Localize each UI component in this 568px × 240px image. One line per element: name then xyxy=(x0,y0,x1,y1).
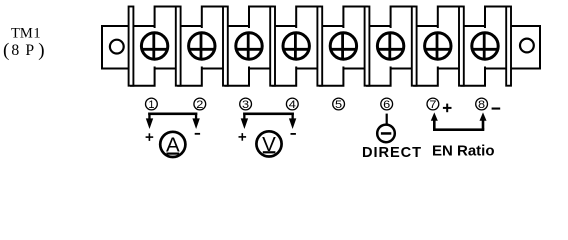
plus sign pin 1 xyxy=(146,133,154,141)
screw terminal 7 xyxy=(425,32,451,59)
barrier 2 xyxy=(176,7,181,86)
terminal 6 bottom wall xyxy=(367,67,391,86)
pin number 8 xyxy=(476,98,488,111)
svg-text:TM: TM xyxy=(11,26,33,42)
barrier 1 xyxy=(129,7,134,86)
terminal 3 bottom wall xyxy=(225,67,249,86)
svg-text:7: 7 xyxy=(429,99,436,111)
svg-text:): ) xyxy=(38,40,44,61)
svg-text:6: 6 xyxy=(383,99,390,111)
terminal 7 bottom wall xyxy=(414,67,438,86)
screw terminal 8 xyxy=(472,32,498,59)
barrier 8 xyxy=(459,7,464,86)
terminal 7 top wall xyxy=(438,7,462,29)
pin number 3 xyxy=(240,98,252,111)
pin number 1 xyxy=(146,98,158,111)
svg-text:EN Ratio: EN Ratio xyxy=(432,143,495,160)
terminal 8 bottom wall xyxy=(461,67,485,86)
terminal block TM1 body xyxy=(102,26,540,69)
barrier 3 xyxy=(223,7,228,86)
minus sign pin 4 xyxy=(291,133,296,135)
terminal 8 top wall xyxy=(485,7,509,29)
terminal 6 top wall xyxy=(391,7,415,29)
barrier 4 xyxy=(270,7,275,86)
minus sign pin 8 xyxy=(492,108,501,110)
screw terminal 2 xyxy=(189,32,215,59)
screw terminal 5 xyxy=(330,32,356,59)
svg-text:5: 5 xyxy=(335,99,342,111)
pin number 4 xyxy=(286,98,298,111)
label TM1 xyxy=(11,26,41,42)
barrier 5 xyxy=(317,7,322,86)
screw terminal 6 xyxy=(377,32,403,59)
barrier 7 xyxy=(412,7,417,86)
barrier 6 xyxy=(365,7,370,86)
terminal 2 top wall xyxy=(202,7,226,29)
minus sign pin 2 xyxy=(195,133,200,135)
barrier 9 xyxy=(506,7,511,86)
left mounting hole xyxy=(110,40,124,54)
svg-text:3: 3 xyxy=(242,99,249,111)
pin number 7 xyxy=(427,98,439,111)
svg-text:DIRECT: DIRECT xyxy=(362,145,422,161)
plus sign pin 3 xyxy=(239,133,247,141)
terminal 2 bottom wall xyxy=(178,67,202,86)
terminal 3 top wall xyxy=(249,7,273,29)
svg-text:4: 4 xyxy=(289,99,296,111)
label (8 P) xyxy=(3,40,45,61)
terminal 5 bottom wall xyxy=(320,67,344,86)
svg-text:2: 2 xyxy=(196,99,203,111)
terminal 4 top wall xyxy=(296,7,320,29)
voltmeter V xyxy=(256,131,281,156)
plus sign pin 7 xyxy=(443,104,452,113)
terminal 5 top wall xyxy=(343,7,367,29)
pin number 6 xyxy=(381,98,393,111)
pin number 2 xyxy=(194,98,206,111)
DIRECT terminal circle xyxy=(377,125,395,143)
svg-text:(: ( xyxy=(3,40,9,61)
wire pins 1-2 to ammeter xyxy=(146,113,200,130)
svg-text:P: P xyxy=(25,42,34,59)
svg-text:8: 8 xyxy=(478,99,485,111)
ammeter A xyxy=(160,132,185,157)
wire pin 6 xyxy=(386,114,388,125)
terminal 4 bottom wall xyxy=(273,67,297,86)
screw terminal 1 xyxy=(141,32,167,59)
screw terminal 4 xyxy=(283,32,309,59)
terminal 1 bottom wall xyxy=(131,67,155,86)
right mounting hole xyxy=(520,39,534,53)
svg-text:8: 8 xyxy=(11,42,19,59)
terminal 1 top wall xyxy=(155,7,179,29)
wire EN Ratio bracket xyxy=(431,112,487,131)
pin number 5 xyxy=(333,98,345,111)
screw terminal 3 xyxy=(236,32,262,59)
wire pins 3-4 to voltmeter xyxy=(241,113,297,130)
svg-text:1: 1 xyxy=(148,99,154,111)
